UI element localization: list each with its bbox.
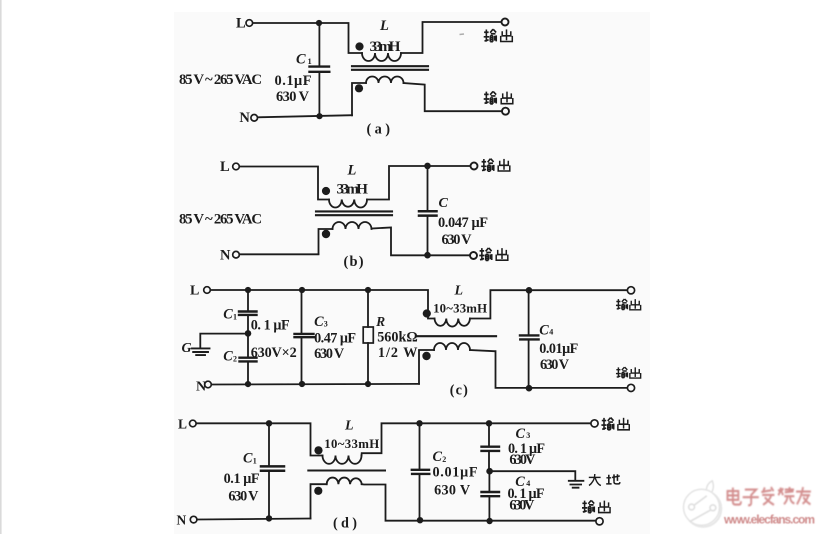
svg-text:630V: 630V [509, 498, 535, 514]
svg-text:3: 3 [324, 320, 328, 329]
svg-text:10~33mH: 10~33mH [324, 437, 379, 451]
svg-text:630 V: 630 V [442, 232, 473, 248]
svg-text:C: C [223, 349, 233, 365]
svg-text:4: 4 [549, 327, 553, 336]
svg-text:R: R [375, 314, 385, 329]
svg-text:33mH: 33mH [370, 38, 401, 55]
svg-text:(b): (b) [344, 254, 364, 270]
svg-text:L: L [220, 159, 230, 175]
svg-text:10~33mH: 10~33mH [433, 302, 487, 316]
svg-text:L: L [454, 284, 464, 299]
svg-text:0.047 μF: 0.047 μF [438, 215, 488, 231]
svg-text:C: C [314, 314, 324, 330]
svg-text:2: 2 [442, 455, 446, 464]
svg-text:1: 1 [308, 56, 312, 66]
svg-text:www.elecfans.com: www.elecfans.com [723, 513, 815, 527]
svg-text:630V: 630V [509, 452, 536, 468]
svg-text:(a): (a) [367, 122, 391, 138]
svg-text:0.01μF: 0.01μF [539, 341, 578, 357]
svg-text:0.1 μF: 0.1 μF [224, 471, 260, 487]
svg-text:L: L [236, 16, 246, 32]
svg-text:(c): (c) [450, 383, 468, 399]
svg-text:N: N [196, 380, 206, 395]
svg-text:630 V: 630 V [540, 357, 570, 373]
svg-text:N: N [220, 248, 231, 264]
svg-text:85 V ~ 265 VAC: 85 V ~ 265 VAC [179, 212, 262, 228]
svg-text:1: 1 [233, 313, 237, 322]
svg-text:C: C [439, 196, 449, 211]
svg-text:0.1μF: 0.1μF [275, 73, 312, 89]
svg-text:C: C [433, 449, 443, 465]
svg-text:L: L [379, 18, 389, 34]
svg-text:L: L [344, 419, 354, 434]
svg-text:N: N [239, 110, 250, 126]
svg-text:630 V: 630 V [434, 483, 471, 499]
svg-text:630 V: 630 V [276, 89, 310, 105]
svg-text:C: C [516, 426, 526, 442]
svg-text:0.47 μF: 0.47 μF [314, 330, 356, 346]
svg-text:560kΩ: 560kΩ [377, 330, 418, 346]
svg-text:C: C [223, 307, 233, 323]
svg-text:L: L [347, 163, 357, 179]
svg-text:1: 1 [253, 457, 257, 466]
svg-text:N: N [177, 513, 187, 528]
svg-text:C: C [243, 451, 253, 467]
svg-text:(d): (d) [333, 516, 357, 532]
svg-text:2: 2 [233, 355, 237, 364]
svg-text:85 V ~ 265 VAC: 85 V ~ 265 VAC [179, 72, 262, 88]
svg-text:1/2 W: 1/2 W [378, 345, 418, 361]
svg-text:G: G [182, 341, 192, 356]
svg-text:L: L [178, 417, 187, 432]
svg-text:3: 3 [526, 431, 530, 440]
svg-text:630 V: 630 V [314, 346, 345, 362]
svg-text:630 V: 630 V [228, 489, 259, 505]
svg-text:C: C [296, 52, 306, 68]
svg-text:33mH: 33mH [337, 181, 369, 198]
svg-text:0. 1 μF: 0. 1 μF [251, 318, 290, 334]
svg-text:630V×2: 630V×2 [251, 345, 297, 361]
svg-text:C: C [539, 322, 549, 338]
svg-text:L: L [190, 284, 199, 299]
svg-text:0.01μF: 0.01μF [433, 465, 478, 481]
